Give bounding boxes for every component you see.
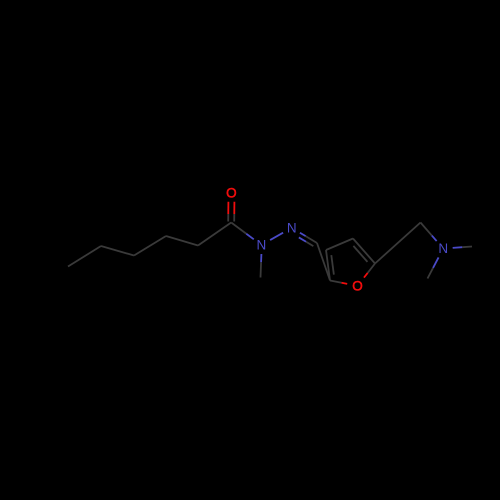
bond C2=C3 ring double	[326, 250, 330, 281]
bond C1=O1 double	[227, 202, 229, 214]
bond C4=C5 ring double	[353, 239, 375, 264]
bond C5-CH2	[375, 223, 421, 264]
wire chain bond 3	[134, 236, 166, 256]
svg-text:N: N	[438, 241, 448, 256]
bond N3-CH3 right	[453, 246, 463, 249]
bond C5-OF ring	[368, 264, 375, 273]
bond CH2-N3	[421, 223, 432, 236]
bond C3-C4 ring	[326, 239, 353, 251]
svg-text:N: N	[257, 238, 267, 253]
wire chain bond 5	[68, 246, 101, 267]
bond N1-N2 hydrazine	[270, 233, 283, 240]
svg-text:O: O	[226, 185, 237, 200]
bond N3-CH3 down	[433, 257, 439, 268]
bond N1-CH3 methyl	[260, 254, 262, 262]
bond C2-OF ring	[330, 281, 342, 283]
wire chain bond 1	[198, 223, 231, 246]
bond CH-C2	[317, 243, 330, 281]
wire chain bond 4	[101, 246, 134, 256]
bond N2=CH double	[300, 233, 306, 236]
svg-text:O: O	[352, 278, 363, 293]
svg-text:N: N	[287, 220, 297, 235]
bond C1-N1	[231, 223, 246, 234]
wire chain bond 2	[166, 236, 198, 246]
